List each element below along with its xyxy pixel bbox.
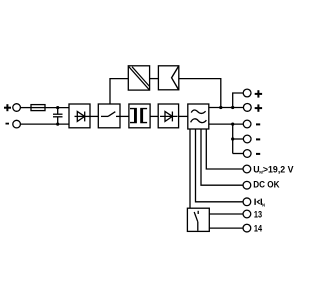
filter wave symbol 2 (191, 119, 207, 123)
relay contact (194, 211, 198, 231)
wire (120, 115, 129, 117)
terminal - 3 (243, 150, 251, 158)
svg-text:>19,2 V: >19,2 V (263, 164, 294, 174)
terminal Uout (243, 165, 251, 173)
wire (relay to 13) (209, 213, 243, 215)
relay box K1 (187, 208, 209, 231)
terminal 13 (243, 210, 251, 218)
svg-text:13: 13 (254, 209, 262, 219)
wire (U4 to I<IN terminal) (196, 129, 244, 202)
wire (relay to 14) (209, 227, 243, 229)
diagonal double line (129, 67, 150, 90)
wire (U4 to DC OK terminal) (201, 129, 243, 185)
input - label (6, 123, 10, 125)
terminal 14 (243, 224, 251, 232)
wire (45, 107, 69, 109)
wire (riser from U2 to top row) (110, 79, 128, 104)
diode D2 (160, 112, 178, 122)
terminal - (input) (13, 120, 21, 128)
PFC box A (diagonal symbol) (128, 66, 149, 90)
wire (150, 78, 159, 80)
node (- branch 2) (231, 137, 234, 140)
terminal - 1 (243, 120, 251, 128)
switch S1 (101, 112, 120, 117)
terminal I<IN (243, 198, 251, 206)
transformer box T1 (129, 104, 150, 128)
label - (256, 138, 260, 140)
node (top riser joins + bus) (219, 106, 222, 109)
wire (20, 123, 69, 125)
input + label (4, 104, 11, 111)
label I<IN (255, 199, 261, 205)
diode D1 (75, 112, 90, 122)
switching stage box U2 (98, 104, 120, 128)
filter wave symbol 1 (191, 110, 205, 113)
terminal DC OK (243, 181, 251, 189)
svg-text:DC OK: DC OK (253, 180, 280, 190)
transformer T1 windings (130, 108, 147, 123)
wire (- output from filter) (209, 123, 243, 125)
wire (20, 107, 31, 109)
fuse F1 (31, 105, 45, 111)
label - (256, 123, 260, 125)
rectifier block box U1 (69, 104, 90, 128)
wire (top row to output bus) (179, 79, 221, 108)
wire (150, 115, 158, 117)
svg-text:N: N (262, 202, 265, 207)
label + (255, 90, 262, 97)
wire (U4 to relay) (189, 129, 191, 208)
terminal + (input) (13, 104, 21, 112)
capacitor C1 (53, 108, 63, 125)
node (+ branch) (231, 106, 234, 109)
node (junction bottom of C1) (56, 123, 59, 126)
output filter box U4 (188, 104, 209, 129)
wire (U4 to Uout terminal) (206, 129, 243, 169)
wire (90, 115, 98, 117)
node (junction top of C1) (56, 106, 59, 109)
chevron (172, 67, 179, 90)
wire (233, 138, 244, 140)
label - (256, 153, 260, 155)
node (- branch) (231, 123, 234, 126)
wire (179, 115, 188, 117)
svg-text:14: 14 (254, 223, 262, 233)
terminal + 2 (243, 104, 251, 112)
boost box B (chevron symbol) (158, 66, 178, 90)
terminal + 1 (243, 89, 251, 97)
terminal - 2 (243, 135, 251, 143)
label + (255, 104, 262, 111)
wire (233, 153, 244, 155)
wire (- bus down) (232, 124, 234, 153)
output diode box U3 (158, 104, 178, 128)
wire (branch to first +) (233, 93, 244, 108)
wire (+ output from filter) (209, 107, 244, 109)
